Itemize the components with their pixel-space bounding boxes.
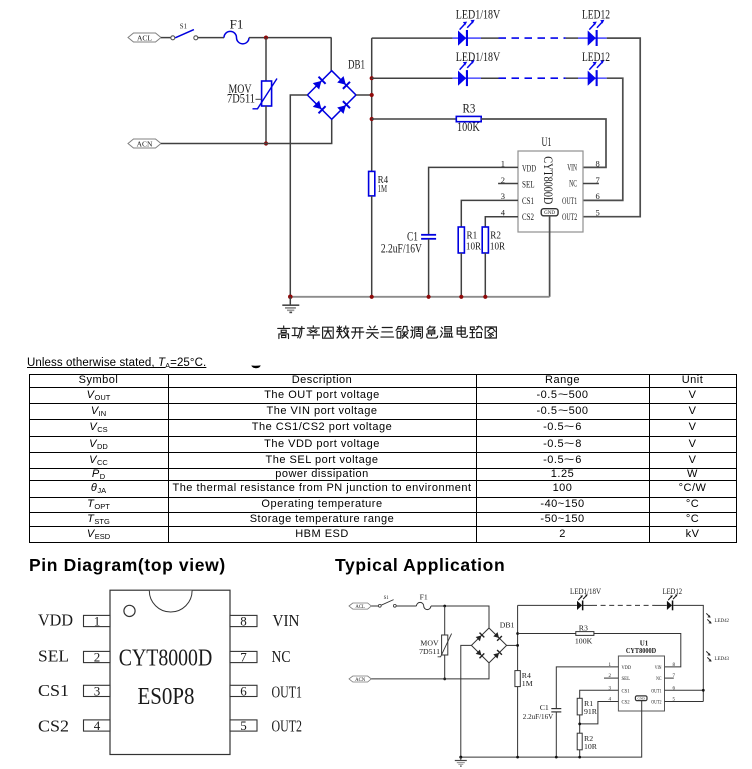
wire MOV top (app)	[444, 606, 446, 635]
wire row2 mid	[481, 77, 499, 79]
wire bridge right vertex to bus	[356, 94, 372, 96]
wire row1 dashed	[499, 37, 566, 39]
pin 3	[84, 684, 111, 699]
wire R3 row (app)	[518, 633, 576, 635]
GND pad of U1	[541, 209, 558, 217]
wire R2 bottom	[484, 253, 486, 297]
wire ACN to bridge bottom	[161, 119, 332, 144]
wire down to bridge top	[330, 38, 332, 72]
wire F1 to bridge top (app)	[431, 606, 489, 628]
wire ground rail	[290, 296, 549, 298]
node CS2/R1R2 (app)	[578, 723, 581, 726]
pin 6	[230, 684, 257, 699]
LED LED12 (app)	[655, 587, 682, 611]
node R4/ground	[370, 295, 374, 299]
node MOV/ACN junction	[264, 141, 268, 145]
LED LED1/18V row2	[453, 50, 501, 86]
node bus/bridge	[370, 93, 374, 97]
svg-text:VIN: VIN	[655, 665, 662, 671]
node bus/LED row2	[370, 76, 374, 80]
wire CS1 to R1	[461, 200, 518, 227]
wire row2 right to OUT1	[583, 78, 623, 200]
svg-text:R3: R3	[579, 624, 588, 633]
svg-text:NC: NC	[656, 676, 662, 682]
pin 4	[84, 718, 111, 733]
switch S1	[171, 24, 198, 40]
bridge rectifier DB1	[307, 58, 365, 120]
resistor R4 (app)	[515, 671, 533, 688]
wire dashes (app)	[592, 604, 655, 606]
svg-text:DB1: DB1	[500, 620, 515, 629]
svg-text:SEL: SEL	[622, 676, 631, 682]
wire OUT2 (app)	[665, 701, 704, 703]
wire MOV bottom (app)	[444, 655, 446, 679]
op-amp U1 chip body (app)	[618, 640, 664, 711]
svg-text:100K: 100K	[575, 636, 593, 645]
switch S1 (app)	[378, 596, 396, 607]
wire ACL to switch	[161, 37, 171, 39]
wire F1 to junction	[249, 37, 332, 39]
svg-text:ACL: ACL	[355, 605, 365, 610]
LED LED1/18V (app)	[570, 587, 601, 611]
wire row1 right to OUT2	[583, 38, 640, 217]
svg-text:91R: 91R	[584, 707, 598, 716]
node F1/MOV junction	[264, 36, 268, 40]
wire GND pad down (app)	[461, 701, 642, 758]
fuse F1 (app)	[417, 592, 431, 609]
svg-text:2.2uF/16V: 2.2uF/16V	[523, 712, 554, 721]
pin 2	[84, 650, 111, 665]
wire SEL stub (app)	[604, 677, 618, 679]
LED LED12 row2	[578, 50, 610, 86]
wire LED row2 left	[372, 77, 453, 79]
svg-text:U1: U1	[640, 640, 649, 648]
svg-text:LED42: LED42	[715, 618, 730, 624]
wire R1 bottom	[460, 253, 462, 297]
wire C1 bottom (app)	[555, 712, 557, 757]
svg-text:LED12: LED12	[663, 587, 683, 596]
resistor R3	[456, 102, 481, 134]
node R1/ground	[459, 295, 463, 299]
pin 1 indicator dot	[124, 605, 135, 616]
pin 7	[230, 650, 257, 665]
terminal ACL	[128, 33, 161, 42]
wire bridge right to bus (app)	[507, 644, 518, 646]
LED string icon LED43	[706, 651, 729, 661]
LED string icon LED42	[706, 613, 729, 623]
wire mid (app row)	[583, 604, 592, 606]
wire MOV bottom lead	[265, 106, 267, 144]
svg-text:LED43: LED43	[715, 656, 730, 662]
wire DC bus (app)	[517, 605, 519, 757]
wire LED12 to right rail (app)	[673, 605, 703, 701]
wire CS2 route (app)	[580, 702, 619, 724]
wire NC stub	[583, 183, 599, 185]
svg-text:VDD: VDD	[622, 665, 632, 671]
resistor R3 (app)	[575, 624, 594, 646]
wire LED row1 left	[372, 37, 453, 39]
wire ACL to switch (app)	[371, 605, 378, 607]
node C1/ground (app)	[555, 756, 558, 759]
svg-text:ACN: ACN	[355, 678, 366, 683]
wire SEL stub	[498, 183, 518, 185]
svg-text:1M: 1M	[522, 679, 533, 688]
varistor MOV 7D511	[227, 79, 277, 109]
TABLE	[29, 374, 737, 543]
svg-text:CYT8000D: CYT8000D	[626, 648, 656, 655]
wire CS2 to R2	[485, 217, 518, 227]
wire R3 row left	[372, 118, 457, 120]
wire bridge left vertex to ground rail	[290, 95, 307, 297]
svg-text:CS1: CS1	[622, 688, 631, 694]
resistor R2	[482, 227, 505, 253]
resistor R4	[369, 171, 389, 196]
node R4/ground (app)	[516, 756, 519, 759]
svg-text:10R: 10R	[584, 742, 598, 751]
node OUT1/rail (app)	[702, 689, 705, 692]
node C1/ground	[427, 295, 431, 299]
svg-text:CS2: CS2	[622, 700, 631, 706]
node F1/MOV (app)	[443, 605, 446, 608]
svg-text:OUT2: OUT2	[651, 700, 662, 706]
resistor R1 (app)	[577, 698, 598, 716]
wire VDD pin to C1 node	[429, 167, 518, 234]
wire R3 to VIN	[481, 119, 606, 167]
terminal ACN (app)	[349, 676, 371, 683]
wire row1 mid2	[566, 37, 578, 39]
node ground rail left	[288, 295, 293, 300]
headings	[29, 555, 226, 576]
capacitor C1 (app)	[523, 703, 562, 721]
fuse F1	[224, 17, 249, 44]
TOP SCHEMATIC SVG	[0, 0, 752, 350]
wire bridge left to ground (app)	[461, 645, 472, 757]
wire row2 dashed	[499, 77, 566, 79]
resistor R2 (app)	[577, 733, 598, 751]
svg-text:F1: F1	[420, 592, 428, 601]
wire R1 bottom (app)	[579, 715, 581, 733]
varistor MOV 7D511 (app)	[419, 634, 452, 657]
ground symbol (app)	[455, 757, 467, 766]
wire MOV top lead	[265, 38, 267, 81]
node bus/R3 (app)	[516, 632, 519, 635]
caption strokes placeholder	[0, 0, 752, 350]
node bus/R3 row	[370, 117, 374, 121]
wire ACN to bridge bottom (app)	[371, 663, 489, 679]
terminal ACL (app)	[349, 603, 371, 610]
small dash artifact	[251, 356, 261, 374]
LED LED12 row1	[578, 8, 610, 46]
wire switch to fuse	[198, 37, 224, 39]
terminal ACN	[128, 139, 161, 148]
wire switch to F1 (app)	[396, 605, 416, 607]
LED LED1/18V row1	[453, 8, 501, 46]
svg-text:GND: GND	[638, 697, 646, 701]
wire R2 bottom (app)	[579, 750, 581, 757]
svg-text:7D511: 7D511	[419, 647, 440, 656]
pin 8	[230, 614, 257, 629]
capacitor C1	[381, 229, 436, 255]
node ground left (app)	[459, 756, 462, 759]
svg-text:OUT1: OUT1	[651, 688, 662, 694]
ground symbol	[282, 297, 299, 313]
svg-text:LED1/18V: LED1/18V	[570, 587, 601, 596]
node MOV/ACN (app)	[443, 678, 446, 681]
caption 高功率因数开关三段调色温电路图 (drawn strokes)	[278, 326, 290, 339]
bridge rectifier DB1 (app)	[471, 620, 514, 663]
IC package body ES0P8	[110, 590, 230, 754]
op-amp U1 chip body	[518, 135, 583, 232]
pin 5	[230, 718, 257, 733]
wire NC stub (app)	[665, 677, 674, 679]
svg-text:S1: S1	[384, 596, 390, 601]
GND pad of U1 (app)	[635, 696, 647, 701]
wire row2 mid2	[566, 77, 578, 79]
node R2/ground (app)	[578, 756, 581, 759]
wire OUT1 (app)	[665, 689, 704, 691]
wire C1 bottom	[428, 239, 430, 297]
wire row1 mid	[481, 37, 499, 39]
pin 1	[84, 614, 111, 629]
svg-text:C1: C1	[540, 703, 549, 712]
wire GND pad down	[549, 216, 551, 297]
resistor R1	[458, 227, 481, 253]
node R2/ground	[483, 295, 487, 299]
node bus/bridge (app)	[516, 644, 519, 647]
wire R3 to VIN (app)	[594, 634, 681, 667]
wire VDD to C1 node (app)	[556, 667, 618, 709]
wire CS1 to R1 (app)	[580, 690, 619, 698]
wire LED row left (app)	[518, 604, 577, 606]
wire DC bus top	[371, 38, 373, 171]
wire R4 bottom to ground rail	[371, 196, 373, 297]
